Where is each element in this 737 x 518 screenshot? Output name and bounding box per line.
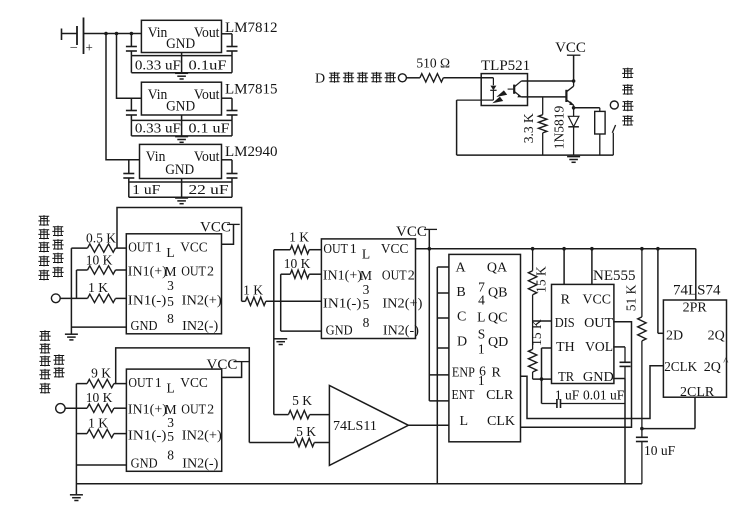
wire R510 to opto LED — [443, 77, 493, 79]
capacitor 1uF (555) — [542, 399, 626, 408]
svg-text:Vin: Vin — [148, 87, 168, 103]
svg-text:VCC: VCC — [180, 240, 208, 255]
svg-text:B: B — [456, 285, 465, 300]
resistor 1K feedback (stage3) — [274, 230, 322, 254]
svg-text:5 K: 5 K — [296, 424, 316, 439]
svg-text:10 uF: 10 uF — [644, 443, 676, 458]
wire ground bus for ABCD — [437, 267, 449, 484]
resistor 510 ohm — [416, 56, 450, 83]
svg-text:0.5 K: 0.5 K — [86, 231, 116, 246]
svg-text:OUT: OUT — [584, 316, 613, 331]
capacitor 0.33 uF (input) — [126, 34, 137, 56]
resistor 15K (upper) — [528, 249, 548, 321]
svg-text:2PR: 2PR — [683, 301, 708, 316]
svg-text:IN1(+): IN1(+) — [323, 269, 362, 284]
svg-text:Vin: Vin — [146, 149, 166, 165]
svg-text:2Q: 2Q — [704, 360, 721, 375]
svg-text:–: – — [70, 39, 78, 54]
svg-text:5: 5 — [167, 294, 174, 309]
svg-text:1: 1 — [350, 242, 357, 257]
load resistor (box) R-out — [595, 108, 605, 155]
transistor Q1 — [566, 81, 574, 105]
label LM7815 — [225, 82, 278, 98]
svg-text:GND: GND — [166, 36, 195, 52]
svg-text:IN1(-): IN1(-) — [128, 293, 167, 308]
svg-text:8: 8 — [363, 315, 370, 330]
svg-text:IN2(-): IN2(-) — [383, 324, 419, 339]
svg-text:L: L — [166, 245, 174, 260]
svg-text:VCC: VCC — [583, 292, 612, 307]
label LM7812 — [225, 20, 278, 36]
wire U6 GND pin — [76, 464, 126, 466]
wire 2D to rail — [658, 249, 664, 334]
svg-text:2CLK: 2CLK — [664, 360, 697, 375]
label LM2940 — [225, 144, 278, 160]
wire Vout to output capacitor — [222, 159, 233, 161]
capacitor 0.33 uF (input) — [126, 98, 137, 120]
wire U5 GND pin — [71, 326, 126, 328]
switch lever to output — [612, 125, 615, 155]
svg-text:IN2(+): IN2(+) — [182, 429, 222, 444]
ground (opto section) — [567, 157, 580, 163]
svg-text:5: 5 — [363, 297, 370, 312]
ground — [175, 73, 188, 79]
svg-text:OUT: OUT — [181, 265, 206, 280]
counter U9 74LS161 box — [449, 254, 521, 441]
label signal output (信号输出) — [622, 68, 633, 126]
svg-text:D: D — [315, 71, 325, 86]
svg-text:LM2940: LM2940 — [225, 144, 278, 160]
regulator U3 LM2940 box — [140, 144, 222, 178]
svg-text:2: 2 — [207, 403, 214, 418]
svg-text:Vout: Vout — [194, 25, 220, 41]
resistor 5K (input 2) — [249, 424, 329, 447]
svg-text:LM7815: LM7815 — [225, 82, 278, 98]
regulator U1 LM7812 box — [141, 20, 221, 52]
resistor 51K — [624, 249, 647, 429]
opto light arrows — [492, 90, 507, 103]
wire stage1 left vertical to ground — [70, 248, 72, 334]
label D flip-flop signal (D触发器信号) — [315, 71, 396, 86]
svg-text:9 K: 9 K — [91, 366, 111, 381]
svg-text:2: 2 — [207, 265, 214, 280]
svg-text:GND: GND — [165, 162, 194, 178]
svg-text:L: L — [166, 381, 174, 396]
wire U6 OUT1 top loop to 5K — [116, 348, 250, 443]
svg-text:2: 2 — [408, 269, 415, 284]
svg-text:3: 3 — [167, 415, 174, 430]
opto-coupler U4 TLP521 box — [481, 58, 530, 106]
svg-text:R: R — [561, 292, 571, 307]
svg-text:TLP521: TLP521 — [481, 58, 530, 74]
wire U8 output to 74LS161 L pin — [408, 424, 449, 426]
svg-text:1: 1 — [155, 240, 162, 255]
svg-text:GND: GND — [583, 370, 614, 385]
svg-text:L: L — [460, 414, 469, 429]
svg-text:DIS: DIS — [555, 316, 575, 331]
svg-text:OUT: OUT — [128, 376, 153, 391]
svg-text:QD: QD — [488, 335, 508, 350]
svg-text:VCC: VCC — [207, 357, 238, 373]
svg-text:VCC: VCC — [396, 224, 427, 240]
svg-text:VCC: VCC — [555, 40, 586, 56]
svg-text:1 K: 1 K — [243, 283, 263, 298]
svg-text:1: 1 — [478, 373, 485, 388]
label NE555 — [593, 268, 636, 284]
svg-text:OUT: OUT — [128, 240, 153, 255]
ground (stage1) — [65, 334, 78, 340]
wire stage3 10K to ground — [281, 274, 322, 331]
svg-text:L: L — [477, 310, 485, 325]
ground — [175, 137, 188, 143]
wire stage1 10K drop — [76, 270, 78, 298]
wire 2CLR to RC node — [642, 397, 695, 428]
capacitor 10uF — [636, 429, 676, 484]
svg-text:A: A — [456, 261, 467, 276]
svg-text:10 K: 10 K — [284, 256, 311, 271]
wire LED cathode to left — [481, 99, 493, 101]
svg-text:^: ^ — [723, 356, 729, 368]
VCC symbol (opto) — [555, 40, 586, 81]
svg-text:+: + — [86, 40, 93, 55]
svg-text:IN1(-): IN1(-) — [323, 296, 362, 311]
wire U5 OUT1 feedback loop top — [117, 208, 242, 302]
wire opto ground rail — [457, 100, 614, 155]
svg-text:Vout: Vout — [194, 87, 220, 103]
svg-text:IN1(+): IN1(+) — [128, 403, 167, 418]
svg-text:8: 8 — [167, 311, 174, 326]
label pressure sensor (制动压力传感器信号) — [38, 215, 63, 280]
svg-text:1 uF: 1 uF — [555, 388, 580, 403]
regulator U2 LM7815 box — [141, 82, 221, 115]
svg-text:QC: QC — [488, 311, 507, 326]
resistor 10K (stage3) — [281, 256, 322, 278]
junction dot 2CLR node — [640, 427, 644, 431]
svg-text:5 K: 5 K — [292, 393, 312, 408]
resistor 0.5K — [71, 231, 126, 253]
capacitor 0.01uF (VOL) — [613, 347, 630, 379]
wire input rail down to U3 Vin — [106, 34, 140, 160]
svg-text:510 Ω: 510 Ω — [416, 56, 450, 71]
svg-text:Vout: Vout — [194, 149, 220, 165]
svg-text:Vin: Vin — [148, 25, 168, 41]
wire 2PR to rail — [695, 249, 697, 300]
resistor 10K (stage1) — [77, 253, 127, 275]
svg-text:CLK: CLK — [487, 414, 515, 429]
resistor 5K (input 1) — [274, 393, 330, 419]
svg-text:2D: 2D — [666, 329, 683, 344]
terminal current sensor circle — [56, 404, 65, 413]
svg-text:2CLR: 2CLR — [680, 385, 715, 400]
ground (stage3) — [274, 339, 287, 345]
svg-text:22 uF: 22 uF — [189, 182, 230, 197]
timer U10 NE555 box — [552, 284, 614, 385]
wire ENP/ENT to VCC drop — [429, 375, 449, 401]
label current sensor (电流传感器信号) — [39, 330, 64, 393]
svg-text:GND: GND — [131, 456, 158, 471]
svg-text:IN2(-): IN2(-) — [182, 319, 218, 334]
label 74LS74 — [673, 283, 721, 299]
svg-text:0.1 uF: 0.1 uF — [189, 121, 231, 136]
svg-text:1: 1 — [478, 342, 485, 357]
value labels box — [131, 115, 232, 136]
svg-text:0.01 uF: 0.01 uF — [583, 388, 625, 403]
wire opto collector to VCC node — [521, 79, 575, 83]
VCC symbol (U7) and enable drop — [396, 224, 437, 401]
svg-text:GND: GND — [326, 324, 353, 339]
junction dots on input wire — [104, 32, 133, 36]
flip-flop U11 74LS74 box — [663, 300, 729, 400]
wire TH to TR node — [542, 348, 553, 404]
svg-text:0.33 uF: 0.33 uF — [135, 58, 182, 73]
wire Vout to output capacitor — [222, 97, 233, 99]
svg-text:1 uF: 1 uF — [132, 182, 161, 197]
resistor 10K (stage2) — [65, 390, 126, 412]
value labels box — [131, 53, 232, 73]
svg-text:10 K: 10 K — [86, 253, 113, 268]
wire input rail down to U2 Vin — [117, 34, 142, 99]
junction dot TR node — [540, 377, 544, 381]
svg-text:VCC: VCC — [381, 242, 409, 257]
svg-text:0.1uF: 0.1uF — [189, 58, 228, 73]
resistor 15K (lower) — [528, 319, 544, 379]
svg-text:NE555: NE555 — [593, 268, 636, 284]
svg-text:OUT: OUT — [382, 269, 407, 284]
wire NE555 OUT to 74LS161 CLK — [521, 322, 632, 428]
svg-text:51 K: 51 K — [624, 284, 639, 311]
svg-text:D: D — [457, 335, 467, 350]
svg-text:74LS11: 74LS11 — [333, 419, 377, 434]
opto LED D1 — [490, 78, 496, 100]
wire emitter node to load resistor — [572, 106, 600, 110]
svg-text:ENP: ENP — [452, 366, 475, 381]
wire Vout to output capacitor — [222, 33, 233, 35]
capacitor 0.1 uF (output) — [227, 98, 238, 120]
op-amp U5 LM358 (pressure) — [126, 234, 222, 334]
wire DIS stub — [533, 320, 552, 322]
wire terminal to R 510 — [406, 77, 420, 79]
ground — [175, 198, 188, 204]
wire bottom ground rail — [76, 483, 642, 485]
svg-text:10 K: 10 K — [86, 390, 113, 405]
wire stage2 left vertical — [75, 384, 77, 495]
ground (stage2) — [70, 495, 83, 501]
svg-text:GND: GND — [131, 319, 158, 334]
svg-text:4: 4 — [478, 293, 485, 308]
wire TR stub — [533, 378, 552, 380]
svg-text:1 K: 1 K — [88, 280, 108, 295]
svg-text:IN2(-): IN2(-) — [182, 456, 218, 471]
gate U8 74LS11 — [329, 386, 408, 466]
svg-text:VOL: VOL — [585, 340, 613, 355]
svg-text:3: 3 — [363, 282, 370, 297]
battery B1 — [62, 18, 93, 55]
svg-text:R: R — [492, 366, 502, 381]
op-amp U7 LM358 (comparator) — [321, 239, 422, 339]
opto phototransistor — [508, 81, 522, 97]
wire stage3 IN1- node down to 5K — [273, 250, 275, 415]
svg-text:ENT: ENT — [452, 388, 475, 403]
svg-text:8: 8 — [167, 447, 174, 462]
svg-text:3.3 K: 3.3 K — [521, 113, 536, 143]
svg-text:3: 3 — [167, 278, 174, 293]
svg-text:S: S — [478, 326, 486, 341]
svg-text:5: 5 — [167, 429, 174, 444]
terminal input circle — [398, 74, 406, 82]
svg-text:0.33 uF: 0.33 uF — [135, 121, 182, 136]
svg-text:VCC: VCC — [180, 376, 208, 391]
diode D2 1N5819 — [552, 105, 579, 155]
svg-text:1 K: 1 K — [289, 230, 309, 245]
svg-text:IN1(-): IN1(-) — [128, 429, 167, 444]
junction dots on VCC rail — [428, 247, 660, 251]
svg-text:GND: GND — [166, 99, 195, 115]
svg-text:15 K: 15 K — [533, 266, 548, 293]
svg-text:IN1(+): IN1(+) — [128, 265, 167, 280]
wire NE555 VCC pin to rail — [591, 249, 593, 285]
wire opto emitter to Q1 base — [521, 96, 566, 98]
svg-text:QA: QA — [487, 261, 508, 276]
svg-text:OUT: OUT — [181, 403, 206, 418]
svg-text:L: L — [362, 247, 370, 262]
value labels box — [129, 179, 232, 198]
resistor 9K — [76, 366, 126, 388]
output terminal circle — [610, 101, 618, 109]
svg-text:IN2(+): IN2(+) — [182, 293, 222, 308]
svg-text:2Q: 2Q — [708, 329, 725, 344]
svg-text:74LS74: 74LS74 — [673, 283, 721, 299]
svg-text:15 K: 15 K — [529, 319, 544, 346]
svg-text:TH: TH — [556, 340, 575, 355]
svg-text:QB: QB — [488, 286, 507, 301]
svg-text:OUT: OUT — [323, 242, 348, 257]
capacitor 1 uF (input) — [123, 160, 134, 182]
wire VCC rail — [416, 248, 696, 250]
svg-text:LM7812: LM7812 — [225, 20, 278, 36]
svg-text:1: 1 — [155, 376, 162, 391]
svg-text:1 K: 1 K — [88, 416, 108, 431]
wire battery to U1 Vin — [84, 33, 142, 35]
svg-text:TR: TR — [558, 370, 575, 385]
labels 1uF 0.01uF — [555, 388, 625, 403]
wire 74LS161 R pin to 74LS74 2CLK — [521, 366, 664, 419]
svg-text:C: C — [457, 310, 466, 325]
svg-text:1N5819: 1N5819 — [552, 106, 567, 150]
op-amp U6 LM358 (current) — [126, 369, 222, 471]
svg-text:CLR: CLR — [486, 388, 514, 403]
wire NE555 R pin to rail — [563, 249, 565, 285]
VCC symbol (U6) — [207, 357, 250, 377]
svg-text:VCC: VCC — [200, 219, 231, 235]
resistor 1K (stage1) — [60, 280, 126, 303]
svg-text:M: M — [164, 264, 176, 279]
resistor 1K (stage2) — [76, 416, 126, 438]
terminal pressure sensor circle — [51, 294, 60, 303]
capacitor 0.1uF (output) — [227, 34, 238, 56]
resistor 3.3K — [521, 97, 547, 155]
wire NE555 GND pin down to rail — [613, 379, 625, 484]
svg-text:IN2(+): IN2(+) — [382, 296, 422, 311]
VCC symbol (U5) — [200, 219, 240, 244]
capacitor 22 uF (output) — [227, 160, 238, 182]
resistor 1K input (stage3) — [242, 283, 322, 306]
